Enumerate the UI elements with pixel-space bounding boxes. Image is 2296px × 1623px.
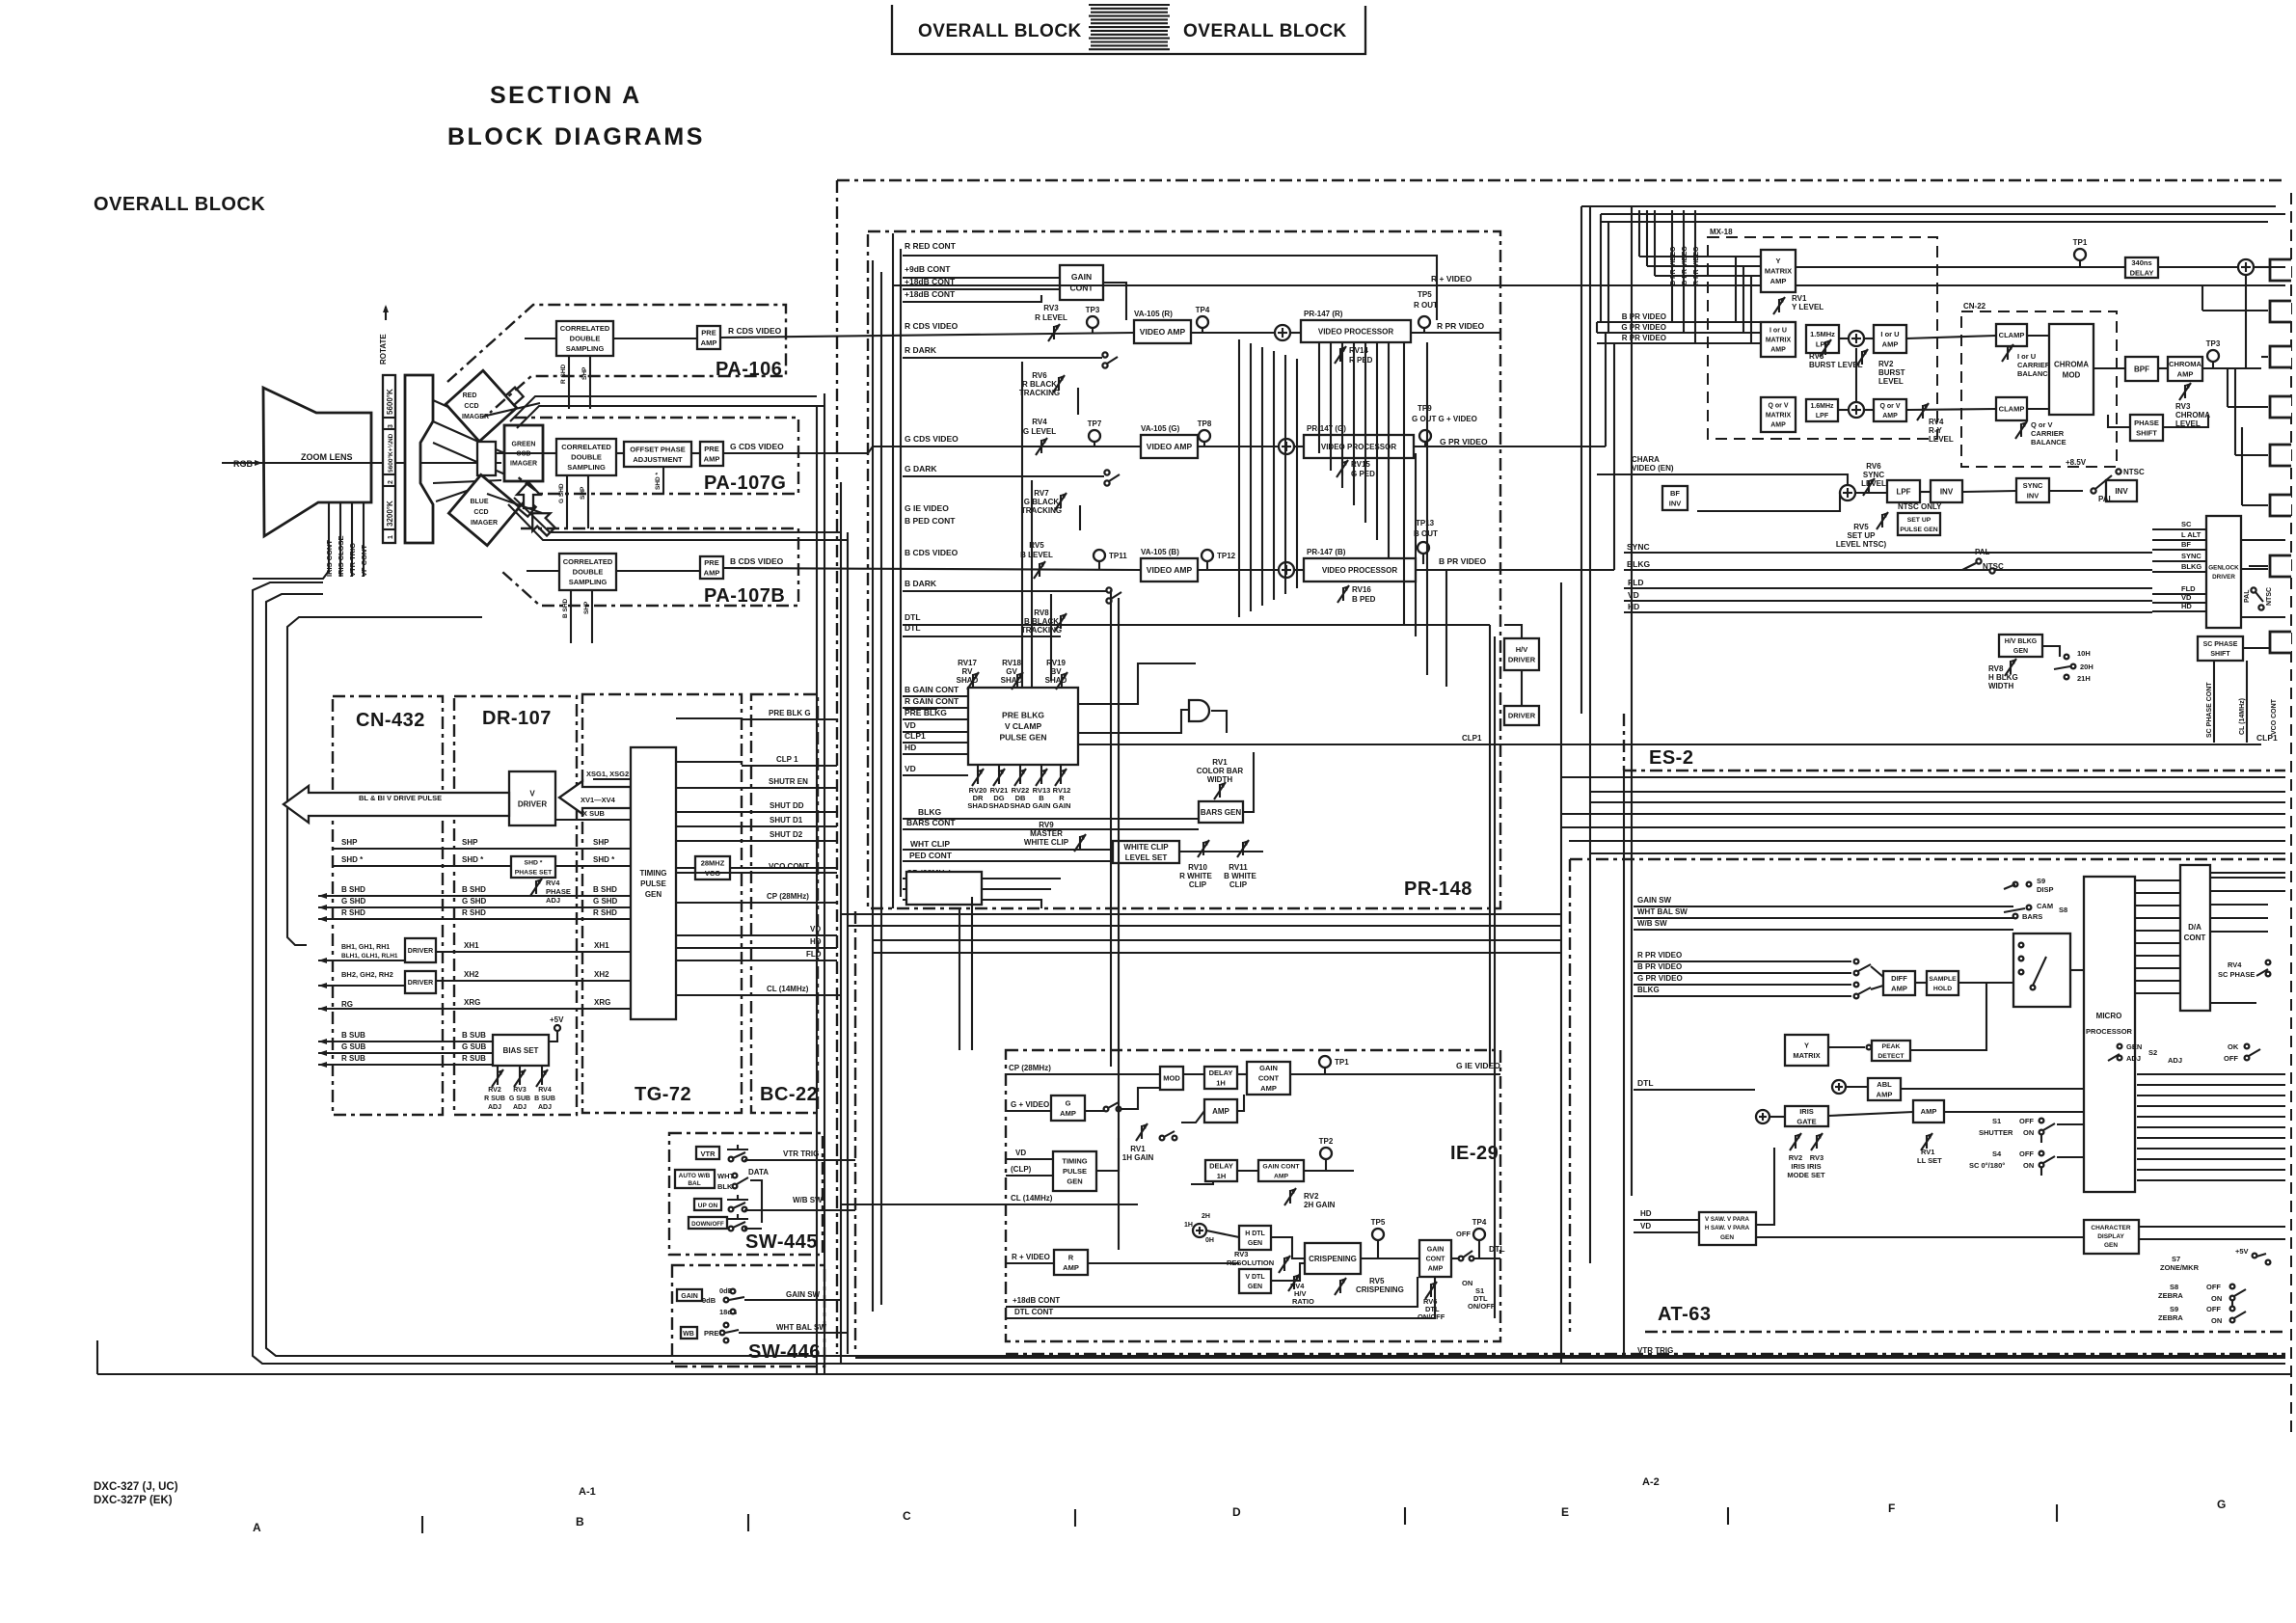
wire tg out: [676, 811, 742, 813]
svg-text:NTSC ONLY: NTSC ONLY: [1898, 502, 1942, 511]
svg-text:S8: S8: [2059, 906, 2067, 914]
switch sc phase adj: [2266, 960, 2271, 965]
wire cp to mod: [1006, 1073, 1160, 1075]
block bpf: [2125, 357, 2158, 381]
wire tg out: [676, 960, 742, 961]
svg-text:AMP: AMP: [2177, 369, 2194, 378]
svg-text:C: C: [903, 1509, 911, 1523]
svg-text:TG-72: TG-72: [635, 1084, 691, 1105]
block correlated double sampling R: [556, 321, 613, 356]
svg-text:SHAD: SHAD: [988, 801, 1010, 810]
svg-text:RV2: RV2: [1304, 1192, 1319, 1201]
testpoint TP8: [1199, 430, 1210, 442]
wire TP9 stem: [1424, 442, 1426, 446]
wire SYNC long: [1624, 552, 2152, 554]
block video amp R: [1134, 320, 1191, 343]
wire row B SHD: [318, 895, 631, 897]
wire tg72 cl wire: [742, 994, 841, 996]
svg-text:SHD *: SHD *: [462, 855, 484, 864]
svg-text:VD: VD: [905, 764, 916, 773]
filter wheel bar: [383, 375, 395, 543]
svg-text:1H GAIN: 1H GAIN: [1122, 1153, 1154, 1162]
svg-text:AMP: AMP: [1770, 421, 1786, 428]
wire genlock right b: [2241, 568, 2268, 570]
svg-text:S4: S4: [1992, 1150, 2002, 1158]
wire dark drop b: [1031, 480, 1033, 688]
svg-text:B PED CONT: B PED CONT: [905, 516, 956, 526]
wire CLP1 long: [1078, 744, 2261, 745]
block video processor B: [1304, 558, 1416, 582]
svg-text:BF: BF: [1670, 489, 1680, 498]
switch S1 shutter: [2039, 1119, 2044, 1123]
wire at2 G PR VIDEO: [1634, 984, 1851, 986]
svg-text:G: G: [2217, 1498, 2226, 1511]
wire imager to CDS B: [527, 570, 559, 572]
svg-text:BALANCE: BALANCE: [2017, 369, 2053, 378]
wire bc CLP 1: [742, 765, 837, 767]
wire QV amp out: [1906, 409, 1996, 410]
wire pot stub: [1019, 765, 1021, 771]
wire cl14 right: [2246, 661, 2248, 743]
wire bars out: [1243, 752, 1254, 812]
svg-text:NTSC: NTSC: [1983, 562, 2004, 571]
pot RV18: [1016, 674, 1018, 688]
pot RV14 R PED: [1339, 348, 1341, 362]
svg-text:CHROMA: CHROMA: [2169, 360, 2201, 368]
svg-text:B PED: B PED: [1352, 595, 1376, 604]
arrowhead G SHD: [318, 905, 327, 910]
summing node Y out: [2238, 259, 2254, 275]
svg-text:ES-2: ES-2: [1649, 747, 1693, 769]
svg-text:+5V: +5V: [550, 1015, 564, 1024]
svg-text:RV5: RV5: [1369, 1277, 1385, 1285]
block g amp: [1051, 1096, 1085, 1121]
block delay 1h b: [1205, 1160, 1237, 1181]
svg-text:AMP: AMP: [1060, 1109, 1076, 1118]
svg-text:GAIN SW: GAIN SW: [786, 1290, 821, 1299]
arrowhead B SUB: [318, 1039, 327, 1044]
svg-text:RV8: RV8: [1034, 609, 1049, 617]
wire bc CP (28MHz): [742, 902, 837, 904]
pot RV6 dtl: [1430, 1284, 1432, 1297]
wire add1 out: [1864, 338, 1874, 339]
wire TP4 stem: [1202, 328, 1203, 333]
svg-text:AMP: AMP: [1212, 1107, 1229, 1116]
svg-text:Y: Y: [1804, 1041, 1809, 1049]
svg-text:ROTATE: ROTATE: [379, 334, 388, 365]
preamp G: [700, 442, 723, 466]
wire video amp B out: [1198, 569, 1279, 571]
block Q or V amp: [1874, 399, 1906, 421]
wire IRIS CONT: [253, 502, 329, 579]
svg-text:SHUTR EN: SHUTR EN: [769, 777, 808, 786]
switch 10H/20H: [2065, 655, 2069, 660]
svg-text:R SHD: R SHD: [560, 364, 567, 384]
wire syncinv to sw: [2049, 490, 2083, 492]
block gain cont amp b: [1258, 1160, 1304, 1181]
svg-text:GEN: GEN: [1248, 1240, 1262, 1247]
svg-text:BL & BI V DRIVE PULSE: BL & BI V DRIVE PULSE: [359, 794, 442, 802]
svg-text:B LEVEL: B LEVEL: [1020, 551, 1053, 559]
svg-text:INV: INV: [1940, 487, 1954, 496]
svg-text:R SUB: R SUB: [484, 1096, 505, 1102]
bus v d: [847, 532, 849, 1354]
wire tg out: [676, 902, 742, 904]
svg-text:MASTER: MASTER: [1030, 829, 1063, 838]
svg-text:DRIVER: DRIVER: [1508, 712, 1536, 720]
svg-text:RG: RG: [341, 1000, 353, 1009]
svg-text:TP4: TP4: [1472, 1218, 1487, 1227]
svg-text:DR-107: DR-107: [482, 708, 552, 729]
svg-text:VIDEO AMP: VIDEO AMP: [1147, 442, 1193, 451]
pot below pulsegen: [1040, 771, 1042, 784]
svg-text:BURST: BURST: [1878, 368, 1905, 377]
svg-text:TP7: TP7: [1088, 419, 1102, 428]
svg-text:TP13: TP13: [1416, 519, 1435, 527]
block abl amp: [1868, 1078, 1901, 1100]
pot below pulsegen: [1019, 771, 1021, 784]
svg-text:SYNC: SYNC: [1863, 471, 1884, 479]
footer tick: [421, 1516, 423, 1533]
wire dark drop c: [1050, 594, 1052, 681]
title hatch: [1089, 4, 1170, 6]
wire Y matrix out: [1796, 266, 2078, 268]
hollow arrow xv1-xv4: [559, 781, 631, 814]
wire lpf2 out: [1838, 409, 1849, 411]
module border ES-2 left low: [1623, 714, 1625, 771]
svg-text:OVERALL BLOCK: OVERALL BLOCK: [94, 194, 265, 215]
svg-text:BLUE: BLUE: [470, 499, 488, 505]
svg-text:1H: 1H: [1184, 1222, 1193, 1229]
wire gca out: [1290, 1073, 1500, 1075]
svg-text:RV2: RV2: [1878, 360, 1894, 368]
wire top right b: [1601, 221, 2268, 223]
svg-text:R SUB: R SUB: [462, 1054, 486, 1063]
page frame: title box: [892, 5, 1365, 54]
wire vtr trig long: [855, 1357, 2285, 1359]
wire FLD long: [1624, 587, 2152, 589]
svg-text:XH1: XH1: [464, 941, 479, 950]
svg-text:RV4: RV4: [538, 1087, 552, 1094]
svg-text:GEN: GEN: [645, 890, 662, 899]
pot RV6: [1058, 377, 1060, 391]
wire bias 5v: [549, 1031, 557, 1041]
svg-text:DOUBLE: DOUBLE: [573, 568, 604, 577]
wire abl out: [1901, 1088, 2084, 1090]
svg-text:HD: HD: [810, 937, 822, 946]
block Q or V matrix amp: [1761, 397, 1796, 432]
wire tg out: [676, 787, 742, 789]
wire sc phase out: [2243, 647, 2285, 649]
svg-text:E: E: [1561, 1505, 1569, 1519]
wire es2 out c4: [2235, 454, 2268, 456]
svg-text:BH2, GH2, RH2: BH2, GH2, RH2: [341, 970, 393, 979]
wire micro to da: [2135, 980, 2180, 982]
block hv blkg gen: [1999, 635, 2042, 657]
svg-text:SHAD: SHAD: [1045, 676, 1067, 685]
svg-text:TP4: TP4: [1196, 306, 1210, 314]
svg-text:R BLACK: R BLACK: [1022, 380, 1057, 389]
svg-text:B SHD: B SHD: [562, 598, 569, 618]
wire VD: [903, 731, 968, 733]
arrowhead R SUB: [318, 1062, 327, 1068]
wire hd at: [1634, 1219, 1699, 1221]
svg-text:5600°K+¼ND: 5600°K+¼ND: [387, 433, 394, 473]
wire delay b out: [1237, 1170, 1258, 1172]
block v dtl gen: [1239, 1269, 1271, 1293]
block driver e: [1504, 706, 1539, 725]
wire XH2 left: [318, 985, 405, 987]
wire delay in: [2025, 266, 2125, 268]
pot RV1 color bar width: [1219, 784, 1221, 798]
svg-text:R CDS VIDEO: R CDS VIDEO: [905, 321, 959, 331]
switch pal/ntsc genlock: [2251, 587, 2255, 592]
wire inv1 in sync: [1962, 491, 2016, 492]
wire cl14 to ie29: [841, 1204, 1006, 1205]
svg-text:CRISPENING: CRISPENING: [1356, 1285, 1404, 1294]
svg-text:AMP: AMP: [1063, 1263, 1079, 1272]
svg-text:FLD: FLD: [2181, 584, 2196, 593]
svg-text:V DTL: V DTL: [1245, 1274, 1265, 1281]
wire B PR in: [1597, 321, 1761, 323]
svg-text:G DARK: G DARK: [905, 464, 937, 473]
svg-text:V: V: [529, 789, 535, 798]
wire HD long: [1624, 611, 2152, 613]
block I or U matrix amp: [1761, 322, 1796, 357]
wire right stub c: [2210, 904, 2268, 906]
svg-text:VIDEO PROCESSOR: VIDEO PROCESSOR: [1321, 443, 1396, 451]
wire clp ie: [1006, 1175, 1053, 1177]
wire da out b: [2210, 1002, 2256, 1004]
wire SHD row b: [555, 865, 631, 867]
block amp at: [1913, 1100, 1944, 1123]
wire bc CL (14MHz): [742, 994, 837, 996]
bottom module border dash: [1006, 1353, 2285, 1355]
svg-text:H SAW. V PARA: H SAW. V PARA: [1705, 1225, 1750, 1231]
svg-text:BURST LEVEL: BURST LEVEL: [1809, 361, 1863, 369]
svg-text:+5V: +5V: [2235, 1247, 2249, 1256]
svg-text:TIMING: TIMING: [640, 869, 667, 878]
wire top right vb: [1607, 222, 1609, 333]
filter wheel divider: [383, 485, 395, 487]
red CCD imager: [446, 363, 526, 442]
wire burst riser: [1855, 348, 1857, 402]
module border ES-2 left: [1580, 206, 1582, 714]
svg-text:R GAIN CONT: R GAIN CONT: [905, 696, 959, 706]
svg-text:CCD: CCD: [464, 403, 478, 410]
svg-text:OFF: OFF: [2019, 1150, 2034, 1158]
wire VF CONT: [363, 502, 365, 577]
bus PR148 proc v: [1353, 342, 1355, 505]
switch wb: [724, 1323, 729, 1328]
svg-text:XH2: XH2: [464, 970, 479, 979]
svg-text:MOD: MOD: [1163, 1074, 1180, 1083]
svg-text:DRIVER: DRIVER: [408, 948, 433, 955]
svg-text:RV18: RV18: [1002, 659, 1021, 667]
svg-text:RV3: RV3: [2175, 402, 2191, 411]
summing node burst1: [1849, 331, 1864, 346]
wire TP1e stem: [2079, 260, 2081, 267]
svg-text:GAIN: GAIN: [1427, 1247, 1445, 1254]
wire iris gate out: [1828, 1112, 1913, 1116]
svg-text:AT-63: AT-63: [1658, 1304, 1711, 1325]
block 1.6MHz LPF: [1806, 399, 1838, 421]
wire R video riser: [1118, 598, 1120, 1250]
pot sub adj: [497, 1071, 499, 1085]
svg-text:PRE: PRE: [704, 558, 718, 567]
and gate: [1189, 700, 1209, 721]
wire gl FLD: [2152, 593, 2206, 595]
svg-text:R PR VIDEO: R PR VIDEO: [1637, 951, 1682, 960]
svg-text:Q or V: Q or V: [1879, 403, 1900, 410]
wire riser B PR VIDEO: [1671, 210, 1673, 322]
svg-text:PHASE: PHASE: [546, 887, 571, 896]
wire red imager diag a: [510, 396, 817, 421]
wire vd at: [1634, 1231, 1699, 1233]
svg-text:VIDEO AMP: VIDEO AMP: [1147, 565, 1193, 575]
bus PR148 mid v: [1284, 355, 1286, 594]
svg-text:DIFF: DIFF: [1891, 974, 1907, 983]
wire TP8 stem: [1203, 442, 1205, 446]
svg-text:PAL: PAL: [2244, 589, 2251, 603]
testpoint TP4: [1197, 316, 1208, 328]
svg-text:VD: VD: [810, 925, 821, 933]
wire lpf to inv: [1920, 491, 1931, 493]
pot RV1 1h gain: [1141, 1125, 1143, 1139]
svg-text:CHARA: CHARA: [1632, 455, 1660, 464]
wire CDS B to preamp: [616, 570, 700, 572]
svg-text:DXC-327 (J, UC): DXC-327 (J, UC): [94, 1481, 178, 1493]
svg-text:OFF: OFF: [2019, 1117, 2034, 1125]
block video processor R: [1301, 320, 1411, 342]
svg-text:OFF: OFF: [2206, 1305, 2221, 1313]
svg-text:SHIFT: SHIFT: [2136, 428, 2157, 437]
svg-text:ON: ON: [2211, 1316, 2222, 1325]
svg-text:B SUB: B SUB: [462, 1031, 486, 1040]
wire es2 out c1: [2202, 310, 2268, 311]
svg-text:+18dB CONT: +18dB CONT: [1013, 1296, 1060, 1305]
wire delay out: [2158, 266, 2238, 268]
wire HD: [903, 753, 968, 755]
switch S4 sc: [2039, 1151, 2044, 1156]
svg-text:AMP: AMP: [1274, 1173, 1289, 1179]
bus PR148 mid v: [1273, 351, 1275, 600]
bus v c: [840, 482, 842, 1364]
svg-text:B WHITE: B WHITE: [1224, 872, 1256, 880]
wire bc VD: [742, 934, 837, 936]
wire dtl at: [1634, 1089, 1755, 1091]
svg-text:PR-147 (R): PR-147 (R): [1304, 310, 1343, 318]
wire BLKG long: [1624, 569, 2152, 571]
svg-text:BH1, GH1, RH1: BH1, GH1, RH1: [341, 944, 390, 951]
wire B GAIN CONT: [903, 695, 968, 697]
svg-text:D/A: D/A: [2188, 923, 2201, 932]
wire lpf1 out: [1839, 338, 1849, 339]
svg-text:GEN: GEN: [2013, 648, 2028, 655]
wire chroma mod out: [2093, 367, 2125, 369]
testpoint TP3e: [2207, 350, 2219, 362]
svg-text:G: G: [1066, 1098, 1071, 1107]
svg-text:VD: VD: [1015, 1149, 1026, 1157]
svg-text:TP11: TP11: [1109, 552, 1127, 560]
pot IU carrier: [2007, 346, 2009, 360]
arrowhead G SUB: [318, 1050, 327, 1056]
svg-text:CARRIER: CARRIER: [2017, 361, 2051, 369]
wire +18dB CONT b: [903, 295, 1041, 302]
svg-text:VTR TRIG: VTR TRIG: [783, 1150, 819, 1158]
wire below PR148 a: [873, 939, 1561, 941]
wire crisp out: [1361, 1258, 1419, 1259]
svg-text:TP1: TP1: [1335, 1058, 1349, 1067]
module border ES-2 bottom: [1624, 770, 2285, 771]
wire wht bal sw: [739, 1332, 848, 1334]
svg-text:GAIN: GAIN: [1071, 272, 1092, 282]
summing node burst2: [1849, 402, 1864, 418]
wire bc SHUT D2: [742, 840, 837, 842]
wire r video in: [1006, 1262, 1054, 1264]
switch wb data: [733, 1174, 738, 1178]
wire r amp out: [1088, 1262, 1239, 1264]
switch up on: [727, 1199, 748, 1201]
svg-text:RV1: RV1: [1792, 294, 1807, 303]
svg-text:DOUBLE: DOUBLE: [570, 335, 601, 343]
svg-text:TP9: TP9: [1418, 404, 1432, 413]
svg-text:SHUT D1: SHUT D1: [770, 816, 803, 825]
wire micro fan: [2137, 1137, 2285, 1139]
wire bc SHUT D1: [742, 825, 837, 827]
wire abl sum: [1846, 1086, 1868, 1088]
wire micro to da: [2135, 992, 2180, 994]
svg-text:B PR VIDEO: B PR VIDEO: [1622, 312, 1666, 321]
bus mid below ES-2: [1561, 776, 2285, 778]
wire CLP1: [903, 742, 968, 744]
svg-text:ON: ON: [1462, 1279, 1472, 1287]
svg-text:SHUT D2: SHUT D2: [770, 830, 803, 839]
wire sh out: [1958, 982, 2013, 984]
svg-text:PR-148: PR-148: [1404, 879, 1472, 900]
wire gl SC: [2152, 528, 2206, 530]
svg-text:28MHZ: 28MHZ: [701, 858, 725, 867]
svg-text:BPF: BPF: [2134, 365, 2149, 373]
wire micro to da: [2135, 967, 2180, 969]
svg-text:RV7: RV7: [1034, 489, 1049, 498]
svg-text:CONT: CONT: [2184, 933, 2206, 942]
wire gain cont out: [1103, 283, 1126, 320]
svg-text:BARS: BARS: [2022, 912, 2042, 921]
wire char out b: [2139, 1238, 2285, 1240]
block clamp1: [1996, 324, 2027, 346]
block gain cont amp a: [1247, 1062, 1290, 1095]
svg-text:MODE SET: MODE SET: [1787, 1171, 1825, 1179]
pot QV carrier: [2020, 423, 2022, 437]
wire sub adj stub: [519, 1066, 521, 1071]
wire Y matrix drop a: [1735, 257, 1737, 322]
wire at63 left v4: [1631, 206, 1633, 1196]
wire genlock right c: [2241, 616, 2285, 618]
svg-text:VF CONT: VF CONT: [360, 545, 368, 577]
svg-text:GEN: GEN: [2126, 1042, 2142, 1051]
svg-text:AMP: AMP: [1921, 1107, 1937, 1116]
outer module border left: [836, 180, 838, 1354]
svg-text:B SUB: B SUB: [341, 1031, 365, 1040]
svg-text:G LEVEL: G LEVEL: [1023, 427, 1056, 436]
svg-text:W/B SW: W/B SW: [793, 1196, 823, 1204]
svg-text:DTL: DTL: [1637, 1078, 1654, 1088]
svg-text:SAMPLING: SAMPLING: [566, 344, 605, 353]
svg-text:NTSC: NTSC: [2123, 468, 2145, 476]
outer module border top: [837, 179, 2285, 181]
wire blue imager diag a: [514, 498, 841, 532]
